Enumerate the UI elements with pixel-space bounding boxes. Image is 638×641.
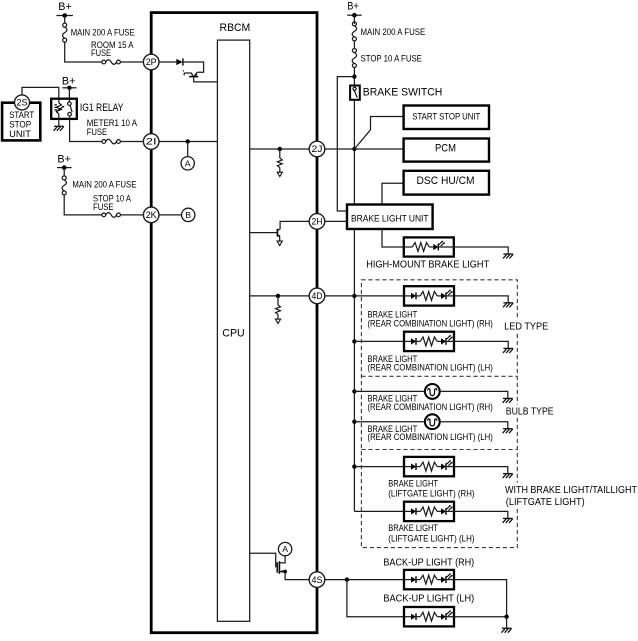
svg-text:IG1 RELAY: IG1 RELAY [80, 102, 124, 114]
svg-text:(REAR COMBINATION LIGHT) (RH): (REAR COMBINATION LIGHT) (RH) [368, 319, 493, 329]
svg-text:A: A [185, 158, 191, 168]
svg-text:PCM: PCM [435, 143, 456, 155]
svg-text:CPU: CPU [222, 327, 244, 339]
svg-text:(LIFTGATE LIGHT) (LH): (LIFTGATE LIGHT) (LH) [388, 533, 474, 543]
svg-text:RBCM: RBCM [220, 22, 251, 34]
svg-text:2J: 2J [312, 144, 323, 154]
svg-text:WITH BRAKE LIGHT/TAILLIGHT: WITH BRAKE LIGHT/TAILLIGHT [505, 485, 637, 496]
svg-text:(LIFTGATE LIGHT): (LIFTGATE LIGHT) [506, 497, 585, 508]
svg-text:STOP: STOP [9, 119, 31, 129]
svg-text:2K: 2K [146, 210, 157, 220]
svg-text:A: A [282, 544, 288, 554]
svg-text:BRAKE LIGHT UNIT: BRAKE LIGHT UNIT [351, 214, 429, 224]
svg-text:START: START [9, 110, 34, 120]
svg-text:(REAR COMBINATION LIGHT) (LH): (REAR COMBINATION LIGHT) (LH) [368, 363, 493, 373]
svg-text:HIGH-MOUNT BRAKE LIGHT: HIGH-MOUNT BRAKE LIGHT [366, 259, 489, 270]
svg-text:MAIN 200 A FUSE: MAIN 200 A FUSE [72, 179, 136, 189]
svg-text:DSC HU/CM: DSC HU/CM [417, 175, 475, 187]
svg-text:B+: B+ [347, 0, 359, 12]
svg-text:FUSE: FUSE [91, 48, 111, 58]
svg-text:B+: B+ [57, 154, 71, 166]
svg-text:4S: 4S [312, 575, 323, 585]
svg-text:FUSE: FUSE [87, 127, 108, 137]
svg-text:(REAR COMBINATION LIGHT) (RH): (REAR COMBINATION LIGHT) (RH) [368, 402, 493, 412]
svg-text:MAIN 200 A FUSE: MAIN 200 A FUSE [361, 27, 426, 37]
svg-text:LED TYPE: LED TYPE [504, 321, 549, 332]
svg-text:2I: 2I [146, 137, 157, 147]
svg-text:MAIN 200 A FUSE: MAIN 200 A FUSE [71, 27, 135, 37]
svg-text:BRAKE LIGHT: BRAKE LIGHT [388, 523, 438, 533]
svg-text:FUSE: FUSE [93, 202, 114, 212]
svg-text:2S: 2S [17, 98, 28, 108]
svg-text:B: B [185, 210, 191, 220]
svg-text:B+: B+ [62, 75, 76, 87]
svg-text:BRAKE SWITCH: BRAKE SWITCH [363, 87, 443, 99]
svg-text:BRAKE LIGHT: BRAKE LIGHT [388, 478, 438, 488]
svg-text:2H: 2H [312, 217, 323, 227]
svg-text:BULB TYPE: BULB TYPE [506, 406, 554, 417]
svg-text:BACK-UP LIGHT (LH): BACK-UP LIGHT (LH) [383, 594, 474, 605]
svg-text:STOP 10 A FUSE: STOP 10 A FUSE [361, 53, 422, 63]
svg-text:(LIFTGATE LIGHT) (RH): (LIFTGATE LIGHT) (RH) [388, 489, 474, 499]
svg-text:B+: B+ [58, 1, 72, 13]
svg-text:4D: 4D [312, 291, 323, 301]
svg-text:2P: 2P [146, 57, 157, 67]
svg-text:BACK-UP LIGHT (RH): BACK-UP LIGHT (RH) [383, 557, 474, 568]
svg-text:(REAR COMBINATION LIGHT) (LH): (REAR COMBINATION LIGHT) (LH) [368, 432, 493, 442]
svg-text:START STOP UNIT: START STOP UNIT [412, 112, 480, 122]
svg-text:UNIT: UNIT [9, 129, 31, 139]
